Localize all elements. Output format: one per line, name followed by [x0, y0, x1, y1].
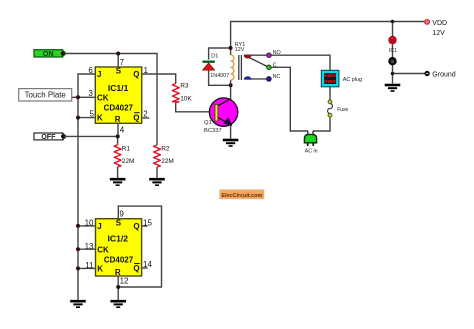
wire touch plate to CK	[72, 96, 96, 98]
svg-text:10K: 10K	[180, 96, 192, 103]
svg-text:6: 6	[88, 66, 93, 75]
svg-text:12V: 12V	[235, 47, 245, 53]
svg-text:BC337: BC337	[204, 128, 222, 134]
ground under IC1/2 pin12	[110, 301, 126, 307]
node J2 junction	[76, 224, 80, 228]
svg-text:NO: NO	[273, 50, 281, 56]
svg-text:Q: Q	[133, 222, 139, 231]
wire R pin4 / OFF / R1	[63, 123, 118, 178]
node CK2 junction	[76, 247, 80, 251]
wire pin8 to ground	[392, 65, 394, 84]
wire pin15 stub	[142, 225, 148, 227]
svg-text:K: K	[97, 114, 103, 123]
svg-text:11: 11	[85, 261, 94, 270]
svg-text:R2: R2	[161, 146, 170, 153]
fuse	[328, 100, 349, 117]
wire pin14 stub	[142, 267, 148, 269]
wire J2 stub	[78, 225, 96, 227]
svg-text:5: 5	[89, 110, 94, 119]
svg-text:R1: R1	[122, 146, 131, 153]
svg-text:13: 13	[85, 242, 94, 251]
svg-text:J: J	[97, 70, 101, 79]
Touch Plate box	[19, 89, 72, 101]
node pin12 junction	[116, 285, 120, 289]
svg-text:12: 12	[120, 276, 129, 285]
VDD terminal	[425, 20, 447, 37]
svg-text:NC: NC	[273, 74, 281, 80]
svg-text:Q: Q	[133, 264, 139, 273]
svg-text:CD4027: CD4027	[104, 104, 134, 113]
resistor R2 22M	[154, 145, 174, 167]
AC in plug	[304, 131, 317, 155]
svg-text:R: R	[115, 115, 121, 124]
wire CK2 stub	[78, 248, 96, 250]
wire K2 stub	[78, 267, 96, 269]
node relay top junction	[229, 46, 233, 50]
svg-text:16: 16	[390, 38, 396, 43]
svg-text:Q: Q	[133, 70, 139, 79]
svg-text:OFF: OFF	[41, 132, 56, 141]
node VDD junction	[391, 20, 395, 24]
svg-text:1N4007: 1N4007	[210, 73, 229, 79]
wire VDD to IC1 pin16	[392, 22, 394, 37]
relay contact NC	[267, 74, 281, 81]
wire C to AC in	[269, 67, 308, 131]
node K2 junction	[76, 266, 80, 270]
svg-text:14: 14	[143, 260, 152, 269]
relay contact NO	[267, 50, 281, 58]
relay contact C	[267, 63, 277, 70]
svg-text:ON: ON	[43, 49, 54, 58]
node ON tip	[61, 52, 65, 56]
ElecCircuit.com badge	[220, 190, 264, 199]
svg-text:Touch Plate: Touch Plate	[25, 91, 67, 100]
svg-text:22M: 22M	[122, 158, 135, 165]
IC1 pin8 ground dot	[389, 57, 397, 65]
svg-text:Q1: Q1	[204, 120, 212, 126]
svg-text:S: S	[116, 219, 122, 228]
svg-text:CK: CK	[97, 246, 109, 255]
wire relay coil stubs	[230, 48, 232, 85]
node relay bottom junction	[229, 83, 233, 87]
ON plate	[34, 49, 66, 58]
wire collector	[218, 85, 230, 106]
op IC1/1 CD4027 box	[95, 66, 141, 124]
svg-text:AC plug: AC plug	[343, 77, 362, 83]
wire ground terminal	[393, 73, 426, 75]
svg-text:2: 2	[143, 110, 148, 119]
ground under R1	[110, 179, 126, 185]
diode D1 1N4007	[203, 54, 230, 79]
OFF plate	[34, 132, 66, 141]
svg-text:IC1/1: IC1/1	[108, 83, 129, 93]
svg-text:22M: 22M	[161, 158, 174, 165]
wire NO to AC plug	[244, 55, 330, 70]
wire R2 bottom	[156, 167, 158, 178]
svg-text:IC1: IC1	[389, 48, 397, 54]
svg-text:AC in: AC in	[305, 148, 318, 154]
svg-text:C: C	[273, 63, 277, 69]
svg-text:8: 8	[391, 59, 394, 64]
node CK1 junction	[76, 95, 80, 99]
svg-text:12V: 12V	[432, 30, 445, 37]
svg-text:Fuse: Fuse	[337, 107, 348, 113]
svg-text:R3: R3	[180, 83, 189, 90]
op IC1/2 CD4027 box	[96, 219, 142, 277]
wire emitter	[218, 118, 230, 139]
svg-text:CD4027: CD4027	[104, 255, 134, 264]
svg-text:IC1/2: IC1/2	[108, 233, 129, 243]
ground top right	[385, 85, 401, 91]
svg-text:VDD: VDD	[432, 20, 447, 27]
ground under Q1 emitter	[223, 140, 239, 146]
AC plug box	[321, 70, 362, 86]
wire pin16 to pin8	[392, 44, 394, 58]
wire pin2 stub	[142, 117, 149, 119]
svg-text:Ground: Ground	[432, 72, 455, 79]
wire relay arm	[247, 56, 269, 67]
Ground terminal	[425, 71, 456, 78]
wire K1 stub	[78, 117, 95, 119]
svg-text:15: 15	[143, 219, 152, 228]
node ground junction	[391, 72, 395, 76]
wire left bus J/CK/K	[78, 74, 95, 300]
wire ON plate to S and R2	[63, 54, 158, 146]
svg-text:3: 3	[88, 89, 93, 98]
svg-text:1: 1	[144, 66, 149, 75]
wire NC stub	[247, 78, 269, 80]
svg-text:9: 9	[119, 209, 124, 218]
node pin4 junction	[116, 134, 120, 138]
svg-text:ElecCircuit.com: ElecCircuit.com	[222, 193, 263, 199]
transistor Q1 BC337	[204, 98, 238, 134]
node OFF tip	[61, 134, 65, 138]
svg-text:Q: Q	[133, 113, 139, 122]
relay NC pad	[244, 76, 252, 79]
svg-text:D1: D1	[211, 54, 218, 60]
ground under R2	[149, 179, 165, 185]
svg-text:CK: CK	[97, 94, 109, 103]
svg-text:7: 7	[120, 58, 125, 67]
svg-text:4: 4	[120, 125, 125, 134]
svg-text:K: K	[97, 264, 103, 273]
resistor R1 22M	[114, 145, 134, 167]
wire AC plug to fuse to AC in	[313, 87, 330, 131]
ground under left bus	[70, 301, 86, 307]
svg-text:10: 10	[85, 219, 94, 228]
relay NO pad	[244, 55, 252, 58]
relay RY1 coil	[231, 42, 246, 80]
resistor R3 10K	[172, 83, 192, 103]
node K1 junction	[76, 116, 80, 120]
node pin7 junction	[116, 52, 120, 56]
IC1 pin16 supply dot	[389, 36, 397, 54]
wire Q1 pin1 to R3 to base	[142, 74, 215, 112]
wire D1 branch	[209, 48, 231, 85]
svg-text:S: S	[116, 66, 122, 75]
svg-text:J: J	[97, 222, 101, 231]
wire pin7 stub	[117, 54, 119, 68]
wire IC1/2 S-R loop	[118, 206, 161, 300]
wire VDD top rail	[231, 22, 426, 49]
